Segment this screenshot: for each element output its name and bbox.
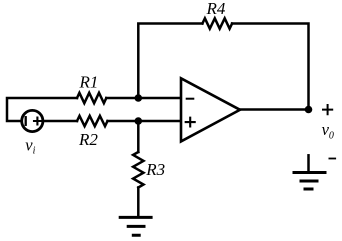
voltage source vi bbox=[22, 110, 43, 131]
op-amp minus sign bbox=[187, 98, 194, 100]
svg-text:R1: R1 bbox=[79, 72, 99, 91]
op-amp U1 bbox=[181, 78, 240, 141]
wire R4 feedback branch bbox=[138, 24, 202, 99]
wire R2 to op-amp plus input bbox=[108, 120, 182, 123]
output plus sign bbox=[323, 105, 332, 114]
wire top-left segment to R1 bbox=[7, 98, 77, 121]
wire source to R2 bbox=[43, 120, 77, 123]
wire R4 to output node bbox=[232, 24, 308, 110]
vi plus sign bbox=[34, 118, 41, 125]
node B (non-inverting input junction) bbox=[135, 117, 143, 125]
wire R3 branch from plus node bbox=[137, 121, 140, 152]
resistor R1 bbox=[77, 93, 106, 103]
svg-text:R3: R3 bbox=[145, 160, 165, 179]
vi minus terminal bar bbox=[25, 117, 27, 125]
svg-text:R2: R2 bbox=[78, 130, 98, 149]
resistor R2 bbox=[77, 116, 108, 126]
wire R1 to op-amp minus input bbox=[106, 97, 181, 100]
ground (right, output reference) bbox=[307, 155, 310, 172]
wire R3 to ground bbox=[137, 188, 140, 217]
op-amp plus sign bbox=[186, 118, 195, 127]
resistor R3 bbox=[133, 152, 143, 188]
node output junction bbox=[305, 106, 313, 114]
ground (left, under R3) bbox=[120, 217, 151, 235]
wire op-amp output bbox=[240, 108, 309, 111]
resistor R4 bbox=[202, 18, 232, 28]
node A (inverting input junction) bbox=[135, 94, 143, 102]
svg-text:R4: R4 bbox=[206, 0, 226, 18]
output minus sign bbox=[329, 158, 335, 160]
